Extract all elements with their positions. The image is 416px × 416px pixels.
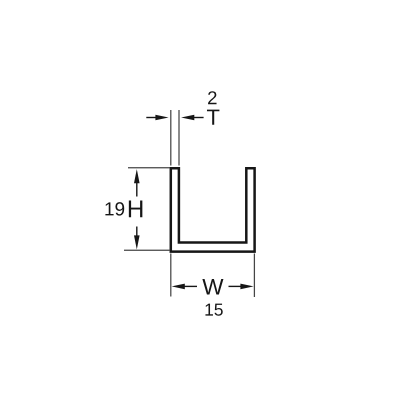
H extension line top bbox=[128, 167, 170, 169]
value 19 bbox=[105, 202, 124, 215]
T dimension left arrow bbox=[155, 115, 168, 121]
T dimension right tail bbox=[193, 117, 203, 119]
H dimension top arrow bbox=[134, 169, 140, 183]
U-channel profile bbox=[171, 168, 255, 251]
W dimension left arrow bbox=[172, 284, 185, 290]
H dimension line lower bbox=[136, 227, 138, 237]
label T bbox=[207, 110, 219, 125]
T dimension left tail bbox=[146, 117, 156, 119]
label W bbox=[202, 279, 223, 294]
value 2 bbox=[208, 91, 216, 104]
label H bbox=[129, 201, 143, 218]
W extension line left bbox=[170, 254, 172, 297]
W dimension right tail bbox=[229, 285, 242, 287]
W extension line right bbox=[253, 254, 255, 298]
H dimension bottom arrow bbox=[134, 235, 140, 249]
W dimension left tail bbox=[184, 285, 197, 287]
H extension line bottom bbox=[124, 249, 170, 251]
T dimension right arrow bbox=[181, 115, 194, 121]
value 15 bbox=[205, 304, 222, 316]
T extension line left bbox=[170, 110, 172, 166]
W dimension right arrow bbox=[240, 284, 253, 290]
T extension line right bbox=[178, 110, 180, 166]
H dimension line upper bbox=[136, 183, 138, 197]
